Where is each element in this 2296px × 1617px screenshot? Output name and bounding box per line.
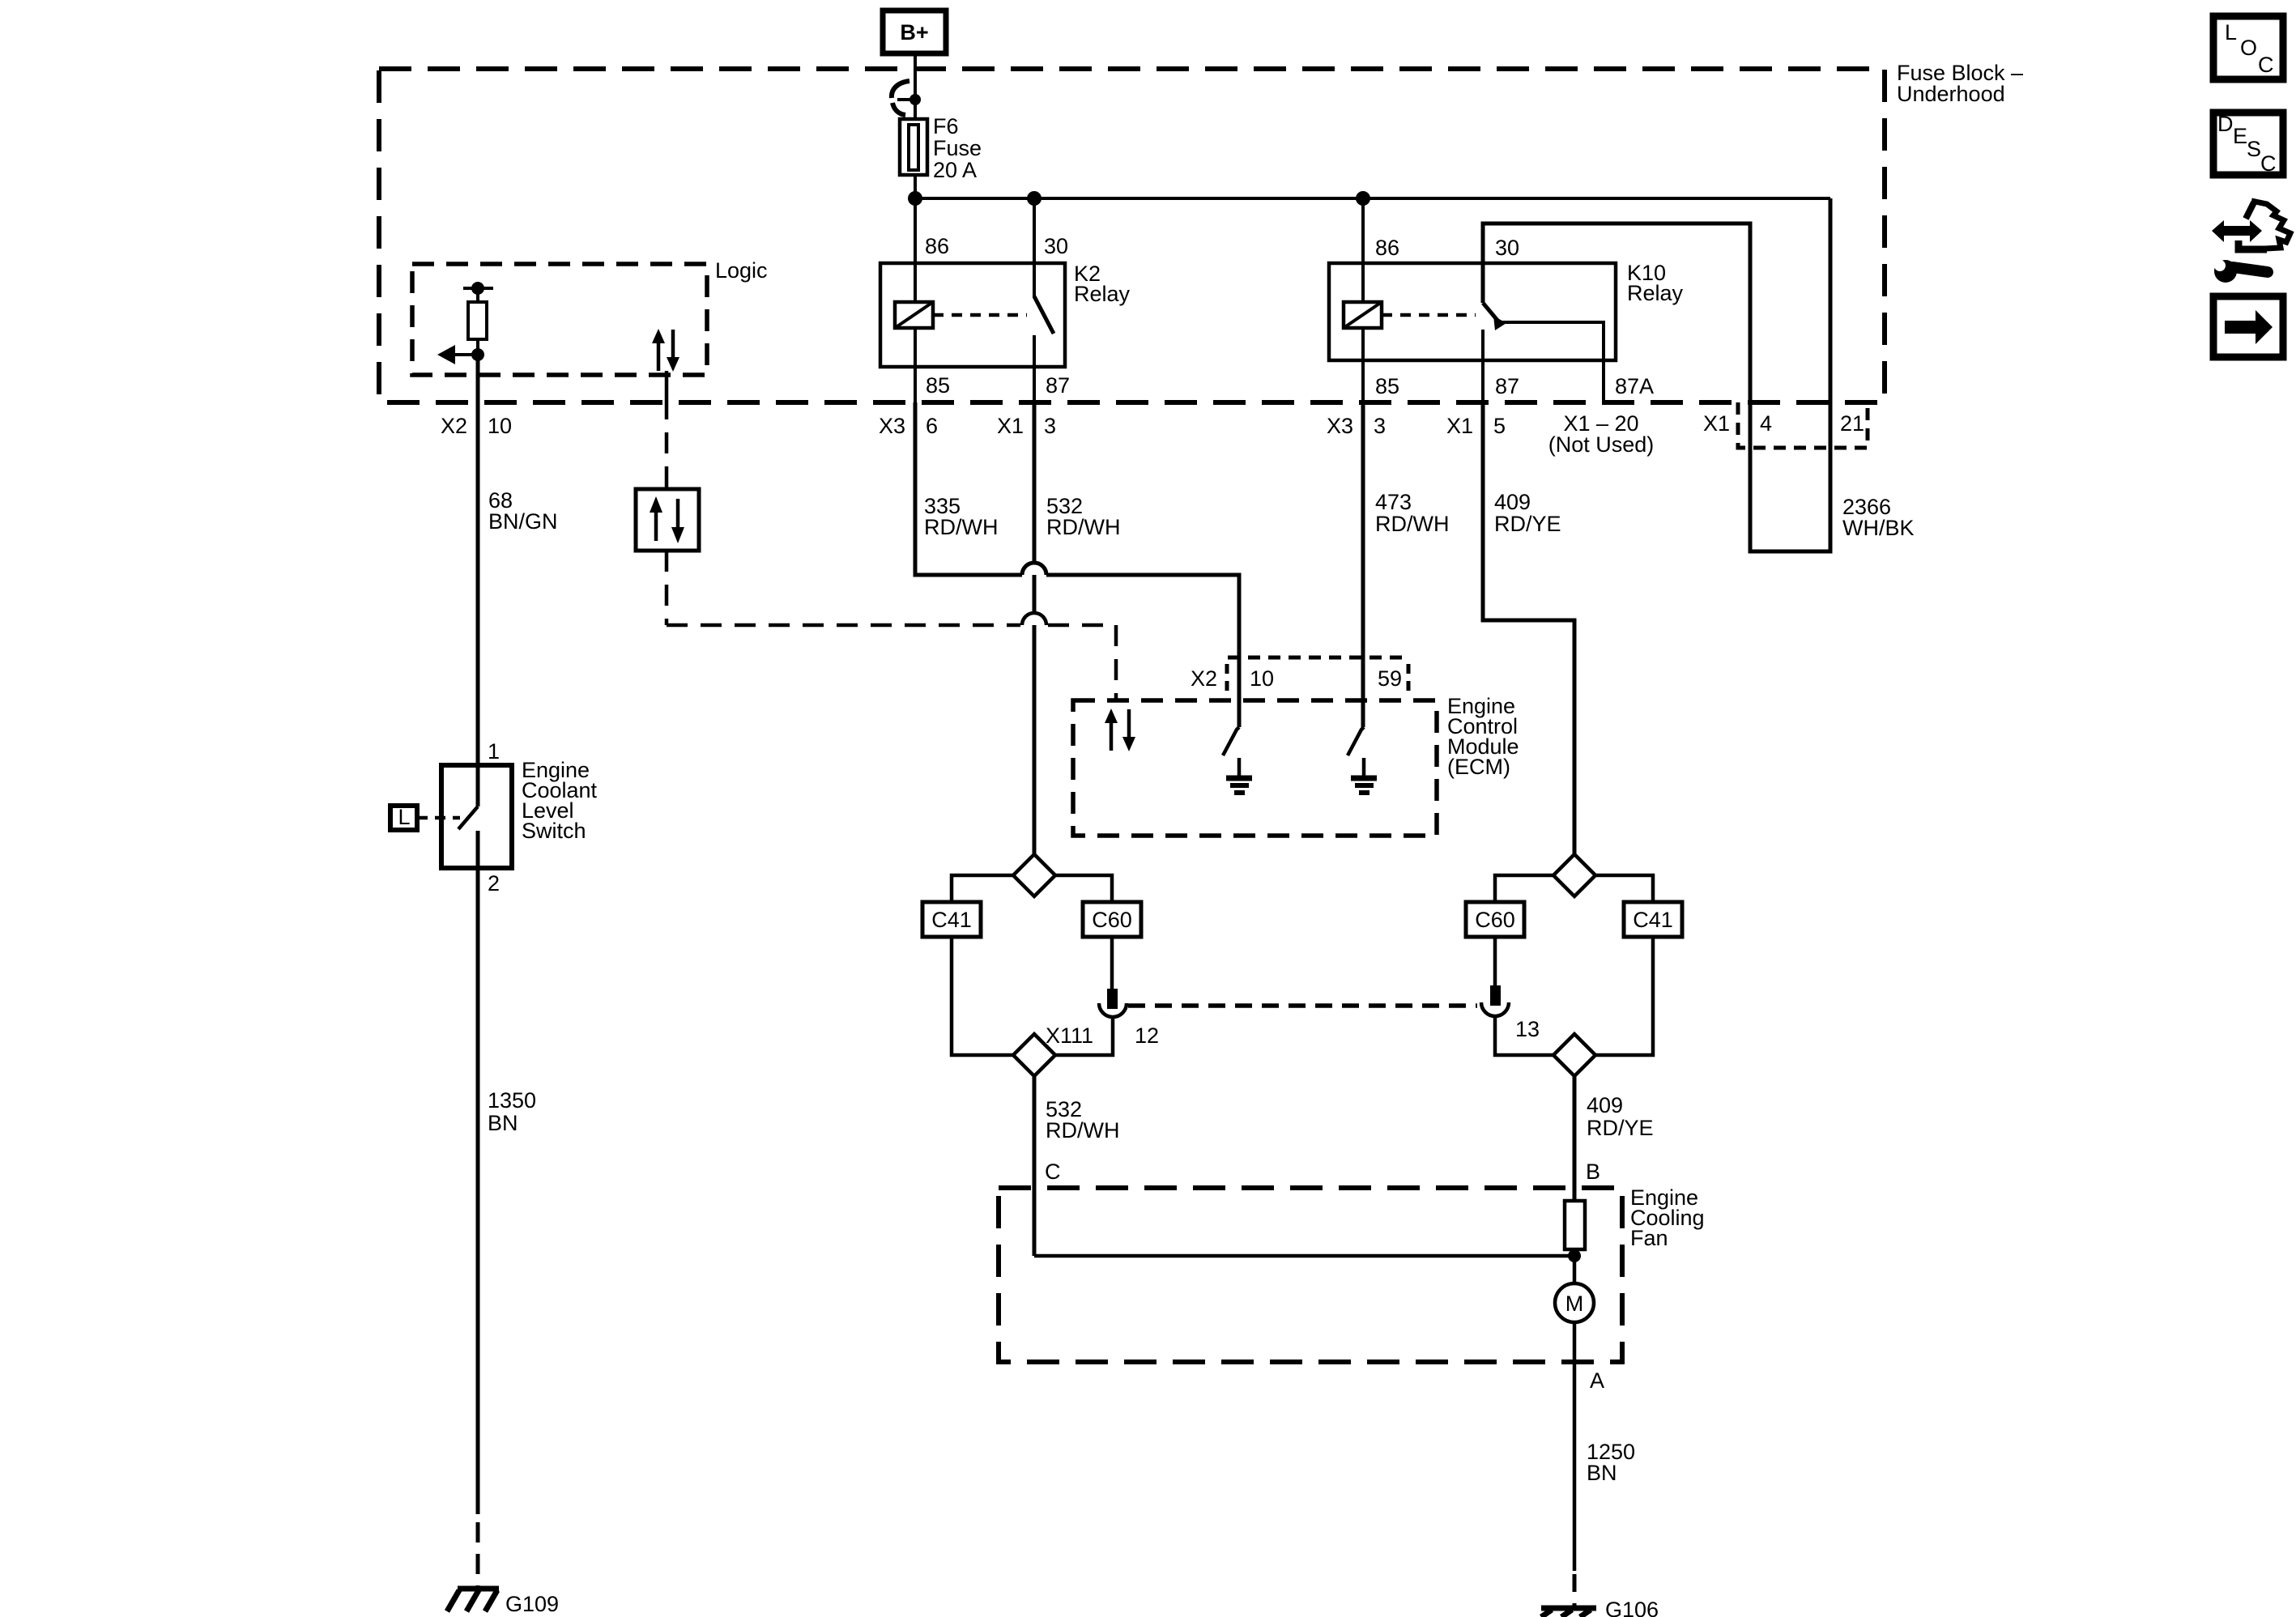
svg-text:Relay: Relay [1627, 281, 1684, 305]
relay K10 [1329, 263, 1616, 360]
svg-text:(Not Used): (Not Used) [1548, 432, 1655, 457]
bidirectional arrows ECM [1110, 721, 1114, 751]
svg-text:C: C [1045, 1160, 1061, 1184]
switch blade K10 [1483, 303, 1499, 322]
svg-text:S: S [2247, 137, 2261, 161]
svg-text:12: 12 [1135, 1023, 1159, 1048]
svg-text:87: 87 [1495, 374, 1519, 398]
svg-text:86: 86 [925, 234, 949, 258]
svg-text:59: 59 [1378, 666, 1402, 691]
coil to switch dashed K2 [933, 313, 1027, 317]
icon hand double arrow [2221, 226, 2252, 236]
svg-text:1: 1 [488, 739, 500, 764]
icon LOC [2213, 16, 2283, 79]
wire hop 335 over 532 [1022, 563, 1046, 575]
node diamond right bottom [1553, 1034, 1595, 1076]
svg-text:C41: C41 [1633, 908, 1673, 932]
svg-text:Switch: Switch [522, 819, 586, 843]
svg-text:13: 13 [1515, 1017, 1540, 1041]
svg-text:RD/WH: RD/WH [1046, 1118, 1119, 1143]
svg-text:C41: C41 [931, 908, 972, 932]
female terminal pin12 [1099, 1003, 1127, 1017]
wire 473 RD/WH K10-85 to ECM pin59 [1361, 402, 1365, 727]
svg-text:5: 5 [1493, 414, 1506, 438]
svg-text:L: L [398, 805, 410, 829]
switch ECM pin10 [1223, 727, 1239, 755]
wire to C41 right [1595, 875, 1653, 902]
wire C41 to bottom diamond [952, 937, 1013, 1055]
wire fan C to junction [1034, 1254, 1574, 1258]
svg-text:1350: 1350 [488, 1088, 536, 1113]
svg-text:473: 473 [1375, 490, 1412, 514]
svg-text:X1: X1 [997, 414, 1024, 438]
switch blade K2 [1034, 296, 1054, 334]
svg-text:4: 4 [1760, 411, 1772, 436]
wire dashed to G106 [1573, 1574, 1577, 1606]
node logic junction [471, 348, 484, 361]
switch blade coolant [458, 806, 478, 829]
svg-text:87A: 87A [1615, 374, 1654, 398]
svg-text:RD/WH: RD/WH [1375, 512, 1449, 536]
engine cooling fan box [999, 1188, 1622, 1362]
svg-text:B+: B+ [900, 20, 928, 45]
svg-text:RD/YE: RD/YE [1587, 1116, 1654, 1140]
wire motor to A [1573, 1322, 1577, 1571]
wire to C60 left [1055, 875, 1112, 902]
ground G106 [1541, 1606, 1596, 1611]
ground G109 [458, 1586, 499, 1592]
svg-text:409: 409 [1587, 1093, 1623, 1117]
svg-text:20 A: 20 A [933, 158, 977, 182]
resistor top bar [463, 287, 493, 290]
logic box [412, 264, 707, 375]
svg-text:3: 3 [1044, 414, 1056, 438]
resistor fan [1565, 1201, 1585, 1249]
node junction K10-86 [1356, 191, 1370, 206]
wire 532 to fan C [1033, 1076, 1037, 1256]
svg-text:BN: BN [1587, 1461, 1617, 1485]
node diamond right top [1553, 854, 1595, 896]
svg-text:X1: X1 [1703, 411, 1730, 436]
svg-text:X2: X2 [1191, 666, 1217, 691]
wire resistor to motor [1573, 1249, 1577, 1283]
node junction K2-30 [1027, 191, 1042, 206]
fuse F6 20A [900, 119, 927, 175]
wire C60 to X111 pin12 [1110, 937, 1114, 989]
svg-text:X1: X1 [1446, 414, 1473, 438]
svg-text:L: L [2225, 20, 2237, 45]
wire K10 pin85 [1361, 328, 1365, 402]
wire pin13 to bottom diamond [1495, 1016, 1553, 1055]
coil to switch dashed K10 [1382, 313, 1476, 317]
wire pin12 to bottom diamond [1055, 1017, 1113, 1055]
svg-text:RD/YE: RD/YE [1494, 512, 1561, 536]
svg-text:F6: F6 [933, 114, 959, 138]
svg-text:RD/WH: RD/WH [924, 515, 998, 539]
wire 1350 BN [476, 831, 480, 1514]
svg-text:10: 10 [488, 414, 512, 438]
svg-text:85: 85 [926, 373, 950, 398]
coil K2 [895, 302, 933, 328]
svg-text:BN/GN: BN/GN [488, 509, 558, 534]
icon DESC [2213, 113, 2283, 175]
svg-text:2: 2 [488, 871, 500, 896]
connector X1 4-21 sub box [1738, 402, 1868, 448]
dashed control line below box [665, 551, 669, 625]
svg-text:30: 30 [1495, 236, 1519, 260]
svg-text:Fan: Fan [1630, 1226, 1668, 1250]
connector C41 left [922, 902, 981, 937]
level sensor L box [390, 806, 417, 830]
arrow left [455, 353, 478, 356]
svg-text:3: 3 [1374, 414, 1386, 438]
wire K2 pin86 [914, 198, 917, 302]
icon arrow box [2213, 296, 2283, 357]
ground ECM pin59 [1362, 758, 1366, 777]
wire fuse to bus [914, 175, 917, 198]
wire K10 pin87 [1481, 330, 1485, 402]
switch ECM pin59 [1348, 727, 1364, 755]
wire 532 RD/WH K2-87 to diamond [1033, 402, 1037, 854]
wire hop dashed over 532 [1022, 613, 1046, 625]
wire K10 pin30 feed [1483, 198, 1830, 551]
wire C41 to bottom diamond right [1595, 937, 1653, 1055]
svg-text:86: 86 [1375, 236, 1399, 260]
serial data symbol box [636, 489, 699, 551]
wire main bus [915, 197, 1830, 200]
engine coolant level switch [441, 765, 512, 868]
wire to C60 right [1495, 875, 1553, 902]
coil K10 [1344, 302, 1382, 328]
male terminal pin13 [1490, 985, 1501, 1006]
wire dashed to G109 [476, 1522, 480, 1587]
connector C41 right [1624, 902, 1682, 937]
svg-text:B: B [1586, 1160, 1600, 1184]
svg-text:X3: X3 [1327, 414, 1353, 438]
svg-text:C: C [2260, 151, 2277, 176]
svg-text:(ECM): (ECM) [1447, 755, 1510, 779]
male terminal pin12 [1107, 989, 1118, 1009]
wire B+ to fuse [914, 53, 917, 121]
svg-text:X3: X3 [879, 414, 905, 438]
svg-text:C: C [2258, 53, 2274, 77]
ECM connector strip X2 [1228, 656, 1409, 660]
svg-text:10: 10 [1250, 666, 1274, 691]
svg-text:X111: X111 [1046, 1023, 1093, 1048]
node fan junction [1568, 1249, 1581, 1262]
svg-text:C60: C60 [1092, 908, 1132, 932]
relay K2 [880, 263, 1065, 367]
svg-text:O: O [2240, 36, 2257, 60]
node diamond left top [1013, 854, 1055, 896]
svg-text:409: 409 [1494, 490, 1531, 514]
svg-text:X2: X2 [441, 414, 467, 438]
ECM box [1073, 700, 1437, 836]
svg-text:6: 6 [926, 414, 938, 438]
dashed control line logic to ECM [665, 371, 669, 398]
battery feed B+ [883, 11, 946, 53]
svg-text:85: 85 [1375, 374, 1399, 398]
wire K2 pin87 [1033, 335, 1036, 402]
female terminal pin13 [1481, 1002, 1509, 1016]
svg-text:C60: C60 [1475, 908, 1515, 932]
wire C60 to X111 pin13 [1493, 937, 1497, 985]
dashed link L to blade [417, 816, 460, 820]
wire K10 pin86 [1361, 198, 1365, 302]
wire 409 to fan B [1573, 1076, 1577, 1201]
node junction at fuse [908, 191, 922, 206]
svg-text:Fuse: Fuse [933, 136, 982, 160]
svg-text:BN: BN [488, 1111, 518, 1135]
svg-text:RD/WH: RD/WH [1046, 515, 1120, 539]
svg-text:M: M [1565, 1291, 1584, 1316]
svg-text:87: 87 [1046, 373, 1070, 398]
wire 335 RD/WH K2-85 to ECM pin10 [915, 402, 1022, 575]
wire K10 87A [1501, 322, 1604, 402]
wire 68 BN/GN [476, 355, 480, 806]
svg-text:30: 30 [1044, 234, 1068, 258]
svg-text:Underhood: Underhood [1897, 82, 2005, 106]
wire K2 pin30 [1033, 198, 1036, 298]
bidirectional arrows logic [657, 341, 661, 371]
resistor [476, 288, 479, 302]
fuse block underhood box [379, 69, 1885, 402]
wire 409 RD/YE K10-87 to diamond [1483, 402, 1574, 854]
clip symbol [892, 81, 909, 115]
connector C60 left [1083, 902, 1141, 937]
node diamond left bottom [1013, 1034, 1055, 1076]
dashed link X111 [1128, 1003, 1477, 1008]
svg-text:G106: G106 [1605, 1598, 1659, 1617]
wire K2 pin85 [914, 328, 917, 402]
wire resistor to junction [476, 339, 479, 355]
icon wrench [2214, 260, 2237, 283]
connector C60 right [1466, 902, 1524, 937]
svg-text:21: 21 [1840, 411, 1864, 436]
svg-text:G109: G109 [505, 1592, 559, 1616]
svg-text:E: E [2233, 124, 2247, 148]
motor M [1555, 1283, 1594, 1322]
svg-text:A: A [1590, 1368, 1604, 1393]
ground ECM pin10 [1237, 758, 1242, 777]
svg-text:Relay: Relay [1074, 282, 1131, 306]
svg-text:WH/BK: WH/BK [1842, 516, 1915, 540]
svg-text:D: D [2217, 112, 2234, 136]
svg-text:Logic: Logic [715, 258, 768, 283]
wire to C41 left [952, 875, 1013, 902]
